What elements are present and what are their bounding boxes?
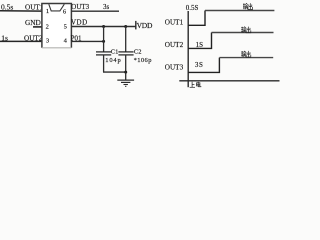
svg-text:VDD: VDD: [137, 21, 153, 30]
label 输出 row 2: [241, 27, 251, 33]
svg-text:OUT1: OUT1: [165, 18, 184, 26]
label 输出 row 1: [243, 3, 253, 9]
svg-text:1: 1: [46, 8, 49, 15]
wire bottom rail C1 to C2: [103, 71, 126, 73]
label 输出 row 3: [241, 51, 251, 57]
waveform OUT1: [188, 11, 274, 26]
svg-text:VDD: VDD: [71, 19, 88, 27]
svg-text:C2: C2: [134, 49, 142, 56]
svg-text:5: 5: [64, 24, 67, 31]
wire node A to C1: [103, 26, 105, 52]
svg-text:104p: 104p: [105, 57, 121, 64]
svg-text:*106p: *106p: [134, 57, 152, 64]
junction node B: [124, 25, 127, 28]
IC U1 body: [42, 4, 72, 48]
svg-text:OUT3: OUT3: [165, 64, 184, 72]
wire pin 6 OUT3: [71, 10, 119, 12]
ground: [117, 72, 134, 86]
junction node D: [124, 71, 127, 74]
VDD power symbol: [136, 21, 153, 30]
svg-text:0.5S: 0.5S: [186, 4, 199, 12]
svg-text:2: 2: [46, 24, 49, 31]
wire pin 4 P01: [71, 40, 103, 42]
wire GND to pin 2: [33, 26, 42, 28]
svg-text:3: 3: [46, 38, 49, 45]
timing diagram axis horizontal: [179, 80, 279, 82]
svg-text:3s: 3s: [103, 3, 110, 11]
capacitor C1: [96, 52, 111, 55]
wire OUT1 to pin 1: [0, 10, 42, 12]
waveform OUT3: [188, 58, 273, 73]
wire C2 bottom: [125, 55, 127, 72]
capacitor C2: [118, 52, 133, 55]
junction node C: [102, 40, 105, 43]
timing diagram axis vertical: [187, 11, 189, 87]
wire OUT2 to pin 3: [0, 40, 42, 42]
svg-text:OUT3: OUT3: [71, 3, 89, 11]
svg-text:3S: 3S: [195, 61, 204, 69]
wire pin 5 VDD: [71, 26, 135, 28]
svg-text:OUT2: OUT2: [165, 41, 184, 49]
svg-text:GND: GND: [25, 18, 41, 27]
wire node B to C2: [125, 26, 127, 52]
junction node A: [102, 25, 105, 28]
svg-text:C1: C1: [111, 49, 119, 56]
label 上电: [190, 82, 201, 88]
waveform OUT2: [188, 33, 273, 49]
wire C1 bottom: [103, 55, 105, 72]
